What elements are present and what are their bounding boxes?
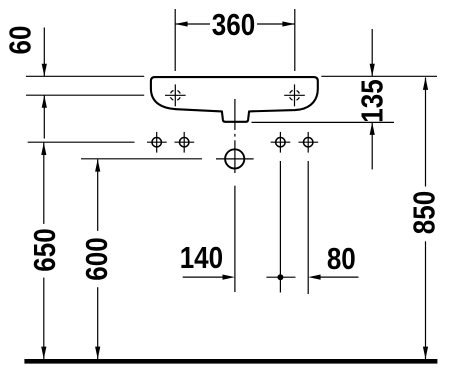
svg-text:360: 360 [212,8,255,43]
svg-text:600: 600 [80,237,115,280]
svg-text:80: 80 [327,242,356,277]
svg-text:135: 135 [355,79,390,122]
svg-text:60: 60 [4,26,39,55]
svg-text:850: 850 [408,191,443,234]
svg-text:140: 140 [180,241,223,276]
svg-text:650: 650 [28,228,63,271]
